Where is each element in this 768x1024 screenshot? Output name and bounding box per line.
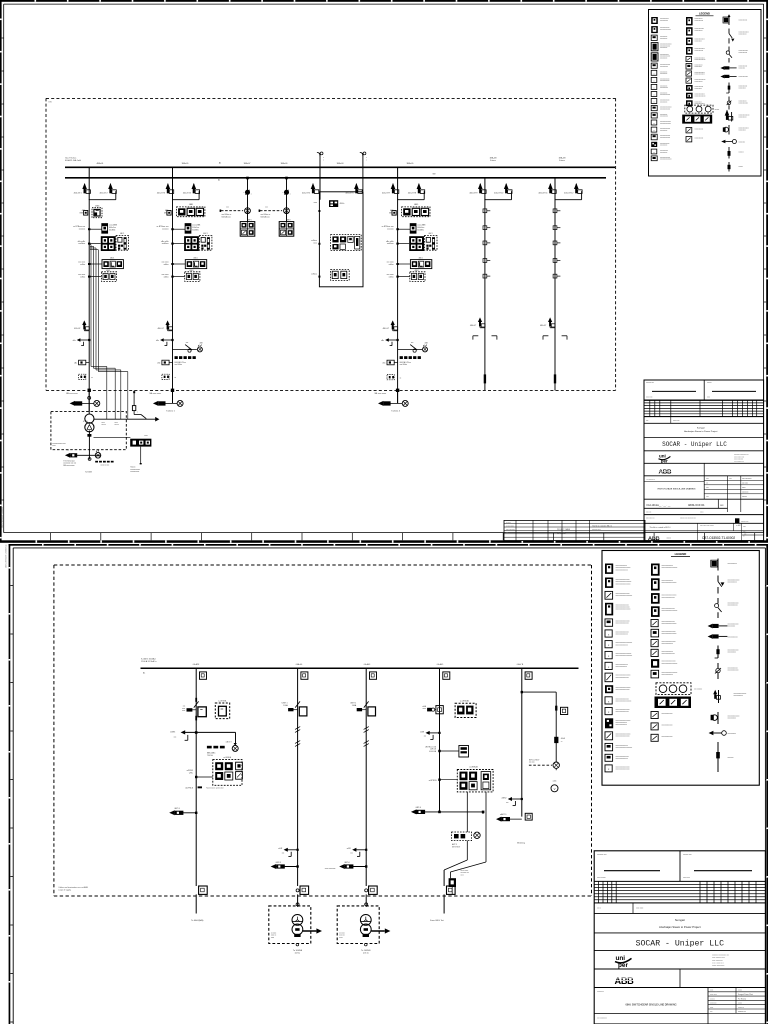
disconnector arrow <box>157 320 172 330</box>
page 2 switchgear dashed boundary <box>54 565 592 896</box>
svg-text:xxxxxxxxxx: xxxxxxxxxx <box>660 73 667 75</box>
bus tap disconnectors at x=172.5 <box>157 167 200 199</box>
svg-text:xxxxx: xxxxx <box>742 487 746 489</box>
surge counter <box>157 360 172 365</box>
svg-text:xxxxxxxxxx: xxxxxxxxxx <box>728 718 737 720</box>
svg-text:xxxxxxxxxxxxxxx: xxxxxxxxxxxxxxx <box>662 597 675 599</box>
p2 feeder 4 line <box>439 668 441 812</box>
svg-text:MOV MOV: MOV MOV <box>452 846 461 848</box>
legend middle lower squares <box>686 128 703 142</box>
legend middle column symbols <box>686 17 706 106</box>
svg-text:xxxxxxxxxx: xxxxxxxxxx <box>695 66 702 68</box>
svg-text:xxxx: xxxx <box>102 422 105 424</box>
svg-text:xxxxxxxxxxxxxx: xxxxxxxxxxxxxx <box>695 103 705 105</box>
crossing circle <box>88 396 91 399</box>
svg-text:xxx: xxx <box>67 450 70 452</box>
svg-text:xxxxxxxxxxxxx: xxxxxxxxxxxxx <box>739 102 749 104</box>
svg-text:xx: xx <box>743 535 745 537</box>
protection relay <box>157 224 202 234</box>
svg-text:xxxx: xxxx <box>743 526 746 528</box>
svg-text:CB7-C63502-T1-60003 xx: CB7-C63502-T1-60003 xx <box>6 545 8 568</box>
svg-text:xxx: xxx <box>744 533 747 535</box>
bay switch <box>244 190 252 196</box>
svg-text:MBC1: MBC1 <box>80 212 86 214</box>
svg-text:xxxxxxxxxx: xxxxxxxxxx <box>660 101 667 103</box>
svg-text:480-GT: 480-GT <box>470 325 477 327</box>
svg-text:A1: A1 <box>143 671 145 674</box>
svg-text:xxxx: xxxx <box>271 937 274 939</box>
bay VT box <box>301 672 308 679</box>
svg-text:V: V <box>554 787 556 791</box>
svg-text:xxxxxx: xxxxxx <box>715 109 720 111</box>
svg-text:xxx: xxx <box>226 206 229 208</box>
doc number row <box>644 499 728 508</box>
svg-text:wLIPSLB: wLIPSLB <box>185 788 194 790</box>
svg-text:Future: Future <box>490 159 497 162</box>
cable arrow GBT-5 <box>271 862 299 869</box>
svg-text:x: x <box>608 655 610 658</box>
svg-text:x: x <box>654 73 655 75</box>
svg-text:xxxxxxx xxx: xxxxxxx xxx <box>646 382 654 384</box>
svg-text:600A 31.5kA 1mH: 600A 31.5kA 1mH <box>65 159 82 162</box>
svg-text:wSR: wSR <box>278 848 283 850</box>
svg-text:xxxxxxxxxxx: xxxxxxxxxxx <box>695 18 703 20</box>
svg-text:4BE1: 4BE1 <box>189 270 193 272</box>
svg-text:xxxxxxxxxxxxxxxxxx: xxxxxxxxxxxxxxxxxx <box>616 701 632 703</box>
svg-text:xxxxxxxxxxxxxxxxxx: xxxxxxxxxxxxxxxxxx <box>662 567 678 569</box>
svg-text:xBB: xBB <box>199 343 203 345</box>
svg-text:xxxxxxx xxxxxxxxx xxx: xxxxxxx xxxxxxxxx xxx <box>734 454 749 456</box>
svg-text:xxxx: xxxx <box>115 422 118 424</box>
svg-text:xxxxxxxxxxx: xxxxxxxxxxx <box>739 116 747 118</box>
svg-text:4BD1: 4BD1 <box>193 257 197 259</box>
p2 feeder 1 lower label <box>185 786 224 789</box>
svg-text:xxxx: xxxx <box>182 710 185 712</box>
svg-text:scope of supply: scope of supply <box>58 890 71 892</box>
ABB logo page 2 <box>594 969 765 988</box>
MBC dashed row generator <box>95 461 113 467</box>
svg-text:GBT-5: GBT-5 <box>276 862 281 864</box>
svg-text:xxxxxxxxxxxxxx: xxxxxxxxxxxxxx <box>695 94 705 96</box>
svg-text:xxxxxxx xxx: xxxxxxx xxx <box>461 872 470 874</box>
disconnector arrow <box>383 320 398 330</box>
tb2 revision table <box>594 881 765 903</box>
boundary bushing box <box>199 886 208 894</box>
svg-text:Turbine 4: Turbine 4 <box>391 409 401 412</box>
svg-text:xxxxxxxxxx: xxxxxxxxxx <box>660 152 667 154</box>
svg-text:xxxxxxxxx: xxxxxxxxx <box>739 67 746 69</box>
svg-text:xxx: xxx <box>461 868 464 870</box>
unit label <box>282 703 289 707</box>
svg-text:xxxxxxxxxxxx: xxxxxxxxxxxx <box>695 86 704 88</box>
svg-text:xxxxxxxxxxx: xxxxxxxxxxx <box>660 20 668 22</box>
svg-text:xBx: xBx <box>381 340 384 342</box>
svg-text:480Vx: 480Vx <box>340 203 345 205</box>
svg-text:4BF2: 4BF2 <box>286 219 290 221</box>
earthing switch <box>156 338 174 345</box>
surge counter <box>74 360 89 365</box>
svg-text:xxxxxxxxxxxxxx: xxxxxxxxxxxxxx <box>616 569 628 571</box>
voltage transformer drum <box>259 206 290 218</box>
MBC fuse row <box>175 356 196 366</box>
svg-text:xxxxxxxxxxxxx: xxxxxxxxxxxxx <box>662 725 673 727</box>
svg-text:xxxx xx: xxxx xx <box>339 935 344 937</box>
svg-text:400-GT10: 400-GT10 <box>494 192 504 194</box>
svg-text:xxxxxxxxxxx: xxxxxxxxxxx <box>660 66 668 68</box>
svg-text:xxx: xxx <box>710 1011 713 1013</box>
svg-text:4BF1: 4BF1 <box>247 219 251 221</box>
svg-text:600/1A xxxx: 600/1A xxxx <box>222 215 231 218</box>
svg-text:xxxxx: xxxxx <box>667 538 672 540</box>
svg-text:xxx: xxx <box>282 853 285 855</box>
withdrawable CB compartment <box>80 205 102 217</box>
svg-text:400-GT6: 400-GT6 <box>345 192 354 194</box>
svg-text:xxxxxx: xxxxxx <box>710 998 715 1000</box>
svg-text:1BA-03: 1BA-03 <box>337 162 345 165</box>
svg-text:xxxxxxxxxxxxxx: xxxxxxxxxxxxxx <box>660 137 670 139</box>
svg-text:LEGEND: LEGEND <box>675 552 687 556</box>
svg-text:xxxxxxxxxx: xxxxxxxxxx <box>695 101 702 103</box>
svg-text:w-LESKA2: w-LESKA2 <box>460 700 469 703</box>
drawing number <box>667 533 747 539</box>
control box row <box>387 257 432 268</box>
svg-text:xxxx xxx: xxxx xxx <box>683 877 690 879</box>
svg-text:xxxxxxxxxxxx: xxxxxxxxxxxx <box>695 129 704 131</box>
svg-text:xxxxxx: xxxxxx <box>707 382 712 384</box>
bay switch <box>283 190 291 196</box>
svg-text:xxxxxxxxxxxxxxxx: xxxxxxxxxxxxxxxx <box>660 159 672 161</box>
svg-text:1BA-05: 1BA-05 <box>182 162 190 165</box>
svg-text:x: x <box>654 87 655 89</box>
svg-text:Azerbaijan Steam to Power Proj: Azerbaijan Steam to Power Project <box>659 925 701 929</box>
uniper address text <box>734 454 749 463</box>
p2 branch fuse capsule <box>554 737 565 743</box>
svg-text:xxxxxxx xxx: xxxxxxx xxx <box>597 854 607 856</box>
p2 feeder 4 breaker <box>422 705 443 714</box>
svg-text:xxxxxxx: xxxxxxx <box>387 229 394 231</box>
svg-text:xxxxxx xxx: xxxxxx xxx <box>683 854 692 856</box>
svg-text:xxxx xxxx: xxxx xxxx <box>636 908 643 910</box>
cable termination box <box>162 374 176 379</box>
svg-text:x: x <box>137 411 138 413</box>
svg-text:xxxBxxx: xxxBxxx <box>162 243 169 245</box>
svg-text:xxxxx: xxxxx <box>738 1003 742 1005</box>
MBC fuse row <box>400 356 421 366</box>
svg-text:Numerative protection: Numerative protection <box>206 787 224 790</box>
svg-text:4BD1: 4BD1 <box>418 257 422 259</box>
metering CT cluster <box>78 233 129 251</box>
svg-text:xxxx: xxxx <box>710 1007 713 1009</box>
svg-text:xxxxxxxxxxx: xxxxxxxxxxx <box>695 65 703 67</box>
svg-text:xBx: xBx <box>156 340 159 342</box>
svg-text:wSR: wSR <box>420 731 425 733</box>
svg-text:xxBxx: xxBxx <box>164 276 169 278</box>
svg-text:1BA-0B: 1BA-0B <box>490 157 498 160</box>
svg-text:xxxxxxxxxxxxxxx: xxxxxxxxxxxxxxx <box>616 677 629 679</box>
svg-text:xxxxxxxxxxxxx: xxxxxxxxxxxxx <box>739 50 749 52</box>
svg-text:xxxxx xx xxx: xxxxx xx xxx <box>101 464 110 466</box>
svg-text:xxxxx: xxxxx <box>700 512 704 514</box>
svg-text:A1: A1 <box>219 161 221 164</box>
page 2 busbar <box>141 667 579 669</box>
svg-text:400-GT11: 400-GT11 <box>538 192 548 194</box>
svg-text:xxxxxxxxxxx: xxxxxxxxxxx <box>660 150 668 152</box>
bus tap disconnectors at x=89.2 <box>74 167 117 199</box>
svg-text:60xBBx: 60xBBx <box>417 229 423 231</box>
svg-text:AB06L DC6 001: AB06L DC6 001 <box>688 504 705 507</box>
svg-text:xxxxxxxxxxxxxx: xxxxxxxxxxxxxx <box>695 72 705 74</box>
svg-text:xxxxxxxxxxxxxxxxx: xxxxxxxxxxxxxxxxx <box>662 623 677 625</box>
svg-text:xxxxxxxxxx: xxxxxxxxxx <box>695 88 702 90</box>
svg-text:xxxxxxxxxxxxxx: xxxxxxxxxxxxxx <box>660 108 670 110</box>
svg-text:xxxxxxxxxxxxx: xxxxxxxxxxxxx <box>616 666 628 668</box>
unit switch box <box>288 701 307 716</box>
svg-text:xxxxxxxxxxxxxxx: xxxxxxxxxxxxxxx <box>695 96 706 98</box>
svg-text:xxxxxxxxxxxxx: xxxxxxxxxxxxx <box>728 670 739 672</box>
svg-text:xxx: xxx <box>506 532 508 534</box>
AVR unit box <box>130 435 151 464</box>
svg-text:xxxx: xxxx <box>423 708 427 710</box>
svg-text:4BC1: 4BC1 <box>120 233 124 235</box>
svg-text:60xBBx: 60xBBx <box>109 229 115 231</box>
future bay ct ticks <box>553 209 560 278</box>
svg-text:wSR3: wSR3 <box>170 732 175 734</box>
svg-text:xxxxxxx: xxxxxxx <box>162 229 169 231</box>
svg-text:xxxxx xxxxxxxxx: xxxxx xxxxxxxxx <box>712 965 724 967</box>
title block page 1 <box>644 380 764 541</box>
earth switch wSR <box>347 848 368 857</box>
svg-text:xxxxxxx: xxxxxxx <box>79 229 86 231</box>
svg-text:xxBxxx: xxBxxx <box>311 274 317 276</box>
svg-text:KA2-100-Ex__ . __ . __: KA2-100-Ex__ . __ . __ <box>647 504 672 507</box>
svg-text:x: x <box>654 130 655 132</box>
surge counter <box>382 360 397 365</box>
earth switch wBS2 <box>501 797 522 806</box>
tb2 customer name <box>594 939 765 951</box>
svg-text:60xBBx: 60xBBx <box>192 229 198 231</box>
svg-text:xxxx: xxxx <box>144 435 147 437</box>
svg-text:xxxxxxxxxxxxxx: xxxxxxxxxxxxxx <box>660 135 670 137</box>
svg-text:xx ABY: xx ABY <box>736 524 741 527</box>
boundary crossing mark <box>171 389 174 392</box>
bottom info strip table <box>504 520 645 540</box>
svg-text:4BB5: 4BB5 <box>189 204 193 206</box>
p2 feeder 1 line <box>195 668 197 913</box>
svg-text:xxxxxxxxxx: xxxxxxxxxx <box>739 129 746 131</box>
svg-text:06-A05: 06-A05 <box>437 663 444 666</box>
disconnector arrow <box>470 317 485 327</box>
svg-text:480-GT: 480-GT <box>540 325 547 327</box>
p2 feeder 1 outgoing label <box>191 919 204 922</box>
svg-text:xxxxxxxxxxx: xxxxxxxxxxx <box>695 81 703 83</box>
circuit breaker assembly <box>182 698 206 721</box>
svg-text:1BA-07: 1BA-07 <box>244 162 252 165</box>
withdrawable VT dashed box <box>455 700 476 718</box>
svg-text:xxxxxxxxxxxx: xxxxxxxxxxxx <box>728 636 738 638</box>
svg-text:MBC: MBC <box>389 212 394 214</box>
svg-text:xxxxxx: xxxxxx <box>739 166 744 168</box>
svg-text:xxx xxxxx: xxx xxxxx <box>742 483 748 485</box>
svg-text:Metering: Metering <box>517 841 525 844</box>
svg-text:xxxxxxxxxxxxxxx: xxxxxxxxxxxxxxx <box>739 115 750 117</box>
svg-text:xxxxxxxxxxxxxx: xxxxxxxxxxxxxx <box>739 128 749 130</box>
svg-text:xxx xxxxxx: xxx xxxxxx <box>694 689 702 691</box>
svg-text:xxxxxxxxxxxxx: xxxxxxxxxxxxx <box>660 27 670 29</box>
svg-text:xxxxxxxxxxxxxxx: xxxxxxxxxxxxxxx <box>660 123 671 125</box>
svg-text:xxx: xxx <box>265 206 268 208</box>
svg-text:x: x <box>608 711 610 714</box>
svg-text:xxxxxxxxxx: xxxxxxxxxx <box>660 38 667 40</box>
svg-text:wBCT3: wBCT3 <box>226 742 232 744</box>
svg-text:xxxx xxxx: xxxx xxxx <box>710 994 717 996</box>
svg-text:xxxxxxxxxx: xxxxxxxxxx <box>728 733 737 735</box>
cubicle left edge ticks <box>318 210 320 278</box>
svg-text:xxxxxxxxxxxxx: xxxxxxxxxxxxx <box>739 76 749 78</box>
svg-text:x xx x xxxx xx x: x xx x xxxx xx x <box>734 461 744 463</box>
legend2 3-circle dashed box <box>656 683 702 695</box>
svg-text:xxxxx xx: xxxxx xx <box>738 1007 744 1009</box>
svg-text:xxxx: xxxx <box>706 487 709 489</box>
unit label <box>350 703 357 707</box>
cable arrow GBT-3 <box>169 808 197 815</box>
spare feeder note <box>325 868 336 870</box>
svg-text:400-GT8: 400-GT8 <box>408 192 417 194</box>
legend 3-circle dashed box <box>685 105 720 113</box>
svg-text:xxxxxxxxxxxxxx: xxxxxxxxxxxxxx <box>695 39 705 41</box>
boundary crossing mark <box>88 389 91 392</box>
feeder 1 CT wire bundle <box>90 245 128 420</box>
bay VT box <box>200 672 207 679</box>
svg-text:400-GT3: 400-GT3 <box>157 192 166 194</box>
legend2 3-square black box <box>655 697 692 709</box>
svg-text:LEGEND: LEGEND <box>699 12 710 16</box>
cable feeder arrow Turbine 1 <box>150 392 184 412</box>
svg-text:xxx x: xxx x <box>597 908 601 910</box>
bus section tap <box>302 167 362 199</box>
svg-text:xxxxxx xxxx: xxxxxx xxxx <box>741 521 749 523</box>
svg-text:xxxx: xxxx <box>729 478 732 480</box>
svg-text:x: x <box>366 157 367 159</box>
bus riser stub R1 <box>317 152 324 167</box>
auxiliary relay row <box>78 270 116 282</box>
title block mid rules <box>644 462 764 464</box>
control box row <box>78 257 123 268</box>
generator terminal bus <box>94 417 160 426</box>
svg-text:xxxx: xxxx <box>339 937 342 939</box>
future bay stub <box>554 374 556 383</box>
svg-text:xxxxxxxxxxxxxxx: xxxxxxxxxxxxxxx <box>660 121 671 123</box>
svg-text:wART-5: wART-5 <box>500 813 506 816</box>
page 1 margin microtext <box>2 506 4 528</box>
svg-text:xxxx xxxxxxxx: xxxx xxxxxxxx <box>325 868 336 870</box>
legend2 left column <box>605 564 632 772</box>
svg-text:xxx: xxx <box>646 420 649 422</box>
svg-text:xxxx: xxxx <box>52 445 55 447</box>
title area grid <box>644 463 764 512</box>
svg-text:xxxxxxxxxxxx xxxx: xxxxxxxxxxxx xxxx <box>52 443 65 445</box>
svg-text:CB7-C63502-T1-60002: CB7-C63502-T1-60002 <box>2 506 4 528</box>
svg-text:xxx: xxx <box>424 736 427 738</box>
svg-text:x xx x xxxx xx x: x xx x xxxx xx x <box>712 963 724 965</box>
svg-text:3BA-05: 3BA-05 <box>407 162 415 165</box>
svg-text:xxxxxxxxxxxx: xxxxxxxxxxxx <box>739 52 748 54</box>
svg-text:xx xxxx: xx xxxx <box>339 932 344 934</box>
svg-text:xxxxxxxxxxx: xxxxxxxxxxx <box>660 116 668 118</box>
svg-text:xxxxxxxxxxx: xxxxxxxxxxx <box>695 30 703 32</box>
svg-text:xxxx xxxx xxx: xxxx xxxx xxx <box>646 517 655 519</box>
svg-text:x: x <box>654 95 655 97</box>
p2 feeder 5 bottom box <box>525 813 532 820</box>
p2 feeder 4 cluster tails <box>444 792 486 914</box>
future bay hooks <box>543 336 567 340</box>
svg-text:xxxxxxxxxx: xxxxxxxxxx <box>660 130 667 132</box>
svg-text:xxxxxxxxxxx: xxxxxxxxxxx <box>739 101 747 103</box>
uniper logo page 1 <box>659 454 671 464</box>
svg-text:CB7-C63502-T1-60002: CB7-C63502-T1-60002 <box>702 536 735 540</box>
svg-text:xxxxxxxxxxxxxxxxxxx: xxxxxxxxxxxxxxxxxxx <box>616 747 633 749</box>
control box row <box>162 257 207 268</box>
boundary bushing box <box>447 886 456 894</box>
svg-text:x: x <box>654 152 655 154</box>
svg-text:400-GT7: 400-GT7 <box>382 192 391 194</box>
disconnector arrow <box>540 317 555 327</box>
svg-text:06A-06: 06A-06 <box>296 663 303 666</box>
svg-text:xxxxxxxxxx: xxxxxxxxxx <box>660 36 667 38</box>
svg-text:xxLEBKA4: xxLEBKA4 <box>469 766 478 769</box>
svg-text:xxxxxxxxxxxxx: xxxxxxxxxxxxx <box>662 736 673 738</box>
cubicle dashed relay cluster <box>311 235 361 251</box>
tb2 title section <box>594 988 765 1024</box>
svg-text:To 6/6kV: To 6/6kV <box>85 471 93 473</box>
svg-text:Sumgait: Sumgait <box>675 918 685 922</box>
svg-text:x: x <box>366 160 367 162</box>
svg-text:xx xxxxxxx xx: xx xxxxxxx xx <box>647 479 656 481</box>
earth switch wSR <box>420 731 441 740</box>
svg-text:xxxx: xxxx <box>314 202 318 204</box>
p2 feeder 4 outgoing label <box>430 919 444 922</box>
VT 4-window box <box>240 219 255 236</box>
relay compartment row <box>389 204 430 217</box>
svg-text:xxxx: xxxx <box>710 990 713 992</box>
svg-text:xx: xx <box>91 377 93 379</box>
svg-text:xBx: xBx <box>73 340 76 342</box>
uniper address page 2 <box>594 954 765 969</box>
svg-text:xBB: xBB <box>425 343 429 345</box>
ABB logo page 1 <box>659 469 674 476</box>
svg-text:100A: 100A <box>352 704 357 707</box>
VT branch with fuse switch <box>173 342 204 352</box>
transformer label <box>361 950 371 955</box>
svg-text:x: x <box>654 123 655 125</box>
svg-text:400-GT4: 400-GT4 <box>183 192 192 194</box>
feeder 2 main line <box>172 199 174 403</box>
svg-text:xxxxxxx xxxxxxxxx xxx: xxxxxxx xxxxxxxxx xxx <box>712 954 729 956</box>
svg-text:To 66kV(A/A): To 66kV(A/A) <box>191 919 204 922</box>
p2 feeder 4 CT device <box>426 745 469 757</box>
metering label <box>517 841 525 844</box>
svg-text:This file is created in EB 2.0: This file is created in EB 2.0 <box>592 525 612 528</box>
svg-text:xxxx: xxxx <box>182 708 185 710</box>
svg-text:x: x <box>251 194 252 196</box>
metering CT cluster <box>386 233 437 251</box>
svg-text:xxxxx: xxxxx <box>738 990 742 992</box>
svg-text:xxxx xxxxxx xxxx: xxxx xxxxxx xxxx <box>712 957 725 959</box>
svg-text:xxx xxx: xxx xxx <box>529 762 535 764</box>
bus labels <box>97 157 567 182</box>
ABB small logo bottom <box>648 536 662 542</box>
uniper logo page 2 <box>615 955 632 969</box>
svg-text:xxxxxxxxxxxxxxx: xxxxxxxxxxxxxxx <box>662 653 675 655</box>
